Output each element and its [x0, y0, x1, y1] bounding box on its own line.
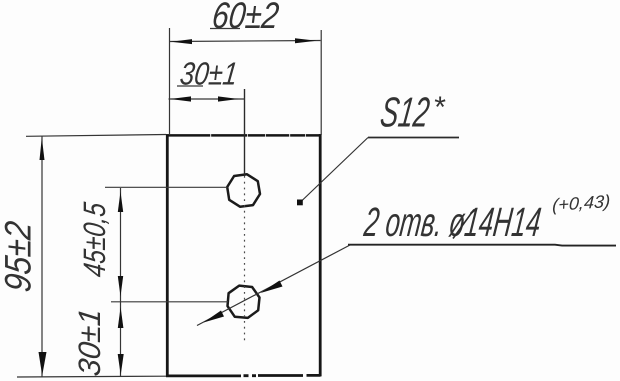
- arrow bottom of 95 dim: [39, 352, 47, 376]
- arrow left of 30 dim: [170, 96, 191, 101]
- label 60±2: [210, 0, 281, 36]
- arrow top of 45 dim: [118, 192, 123, 213]
- leader end square dot: [297, 200, 303, 206]
- top edge scan notches: [210, 134, 306, 137]
- diameter slash overlay: [453, 210, 474, 239]
- arrow bottom of 30 left dim: [118, 354, 124, 375]
- svg-text:95±2: 95±2: [0, 219, 38, 294]
- leader arrow at hole edge: [261, 281, 283, 294]
- dim line: [41, 137, 43, 377]
- arrow left of 60 dim: [171, 39, 192, 44]
- dim line: [170, 41, 321, 42]
- plate outline: [166, 134, 321, 377]
- leader shelf of hole note: [348, 244, 616, 247]
- svg-text:2 отв. ø14H14: 2 отв. ø14H14: [361, 199, 543, 245]
- ext line right: [320, 30, 322, 135]
- hole H1 upper: [227, 174, 260, 206]
- svg-text:S12: S12: [378, 89, 433, 136]
- ext line left: [169, 28, 171, 134]
- arrow bottom of 45 dim: [118, 276, 123, 297]
- dimension 30±1 (left bottom): [120, 302, 122, 376]
- arrow right of 60 dim: [295, 38, 317, 43]
- hole H2 lower: [228, 286, 260, 318]
- ext bottom: [17, 375, 166, 378]
- ext line to hole H1 center: [105, 186, 228, 188]
- ext top: [26, 135, 166, 137]
- label 2 отв. ∅14H14: [361, 199, 543, 245]
- leader line of S12: [301, 138, 369, 203]
- dimension 45±0,5: [120, 188, 122, 302]
- label 45±0,5: [77, 200, 112, 279]
- dimension 95±2 (left): [17, 135, 166, 378]
- label tolerance (+0,43): [550, 191, 612, 215]
- svg-text:45±0,5: 45±0,5: [77, 200, 112, 279]
- centerline vertical: [244, 89, 246, 344]
- leader line of hole note through hole H2: [197, 245, 350, 326]
- arrow right of 30 dim: [218, 96, 239, 101]
- svg-text:30±1: 30±1: [72, 307, 107, 378]
- label 95±2: [0, 219, 38, 294]
- dimension 30±1 (top): [169, 98, 246, 100]
- dimension 60±2: [170, 28, 322, 135]
- arrow top of 95 dim: [40, 138, 45, 161]
- leader arrow outer: [204, 311, 225, 323]
- svg-text:(+0,43): (+0,43): [552, 191, 611, 215]
- svg-text:60±2: 60±2: [210, 0, 281, 36]
- svg-text:*: *: [433, 91, 446, 124]
- label S12*: [378, 89, 433, 136]
- label 30±1: [178, 56, 239, 92]
- ext line to hole H2 center: [111, 301, 228, 303]
- leader shelf of S12: [368, 137, 459, 139]
- label 30±1 left: [72, 307, 107, 378]
- arrow top of 30 left dim: [118, 307, 124, 328]
